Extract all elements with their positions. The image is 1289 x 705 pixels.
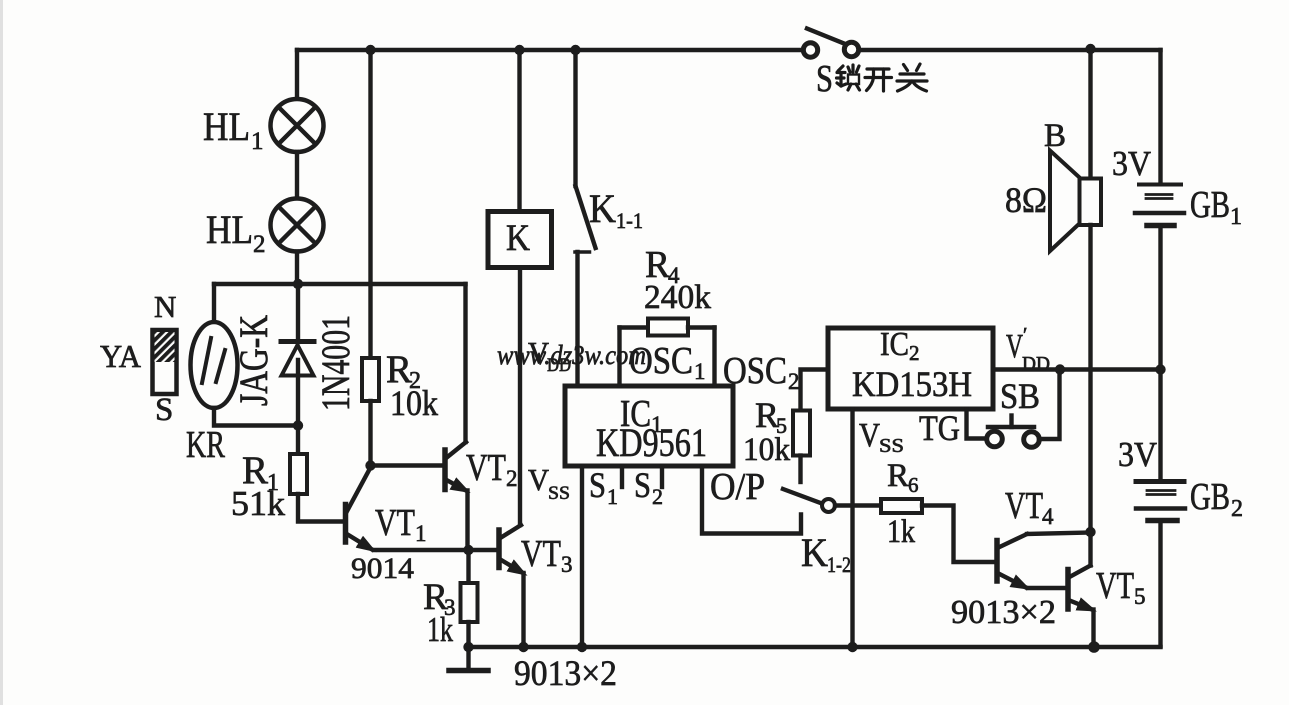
wire R5 bottom stub: [798, 456, 802, 483]
wire to R1: [296, 426, 300, 455]
label IC2: [852, 326, 972, 404]
label VT5: [1096, 565, 1146, 609]
switch K1-2: [783, 489, 835, 512]
char suo: [837, 65, 860, 90]
svg-text:VT: VT: [1096, 565, 1134, 607]
label VT2: [466, 447, 518, 491]
svg-text:VT: VT: [466, 447, 506, 489]
resistor R5: [793, 411, 810, 456]
wire VT4 emitter to VT5 base: [1028, 586, 1066, 590]
wire bottom bus: [469, 645, 1161, 649]
svg-text:S: S: [634, 465, 651, 505]
svg-text:B: B: [1044, 118, 1066, 154]
wire KR bottom lead: [214, 408, 298, 426]
diode 1N4001: [281, 284, 314, 426]
magnet YA body: [153, 330, 177, 394]
wire TG pin to SB: [967, 409, 987, 439]
label GB1: [1190, 184, 1242, 230]
wire subloop top horizontal: [214, 282, 466, 286]
wire node to VT3 base: [469, 548, 498, 552]
svg-text:1: 1: [251, 128, 264, 155]
node Vdd' / GB1: [1155, 364, 1165, 374]
svg-text:R: R: [887, 458, 909, 494]
label VT3: [521, 533, 573, 577]
svg-text:9013×2: 9013×2: [514, 653, 617, 693]
node K branch top bus: [514, 45, 524, 55]
label Vdd' IC2: [1006, 324, 1050, 375]
label K1-2: [801, 530, 851, 577]
svg-text:V: V: [528, 462, 550, 497]
label IC1: [596, 393, 707, 465]
chinese label lock switch (hand-drawn): [837, 64, 928, 91]
wire VT1 emitter to node: [374, 548, 469, 552]
svg-text:OSC: OSC: [723, 350, 787, 392]
resistor R1: [290, 454, 307, 494]
svg-text:VT: VT: [375, 502, 415, 544]
resistor R2: [362, 358, 379, 401]
node K1-1 top bus: [570, 45, 580, 55]
svg-text:9014: 9014: [351, 552, 414, 585]
svg-text:3: 3: [561, 552, 573, 577]
label HL2: [206, 207, 266, 258]
label R2: [386, 348, 438, 423]
svg-text:8Ω: 8Ω: [1005, 180, 1047, 220]
wire VT3 collector to K coil: [518, 268, 522, 526]
svg-text:6: 6: [908, 473, 919, 497]
TEXT-LABELS: [100, 58, 1243, 693]
resistor R3: [461, 550, 478, 647]
svg-text:2: 2: [652, 484, 663, 509]
wire top bus right segment: [859, 48, 1161, 52]
wire R2 branch vertical from top bus: [368, 50, 372, 358]
svg-text:KD9561: KD9561: [596, 420, 707, 465]
node R2 top bus: [365, 45, 375, 55]
node VT2 emitter / VT3 base / R3: [463, 545, 473, 555]
svg-text:3V: 3V: [1112, 144, 1151, 183]
svg-text:VT: VT: [1005, 485, 1043, 527]
wire R2 bottom to node: [368, 401, 372, 466]
label S1: [589, 465, 618, 509]
label R5 10k: [743, 395, 790, 468]
pin S1 stub: [620, 466, 624, 487]
label HL1: [203, 104, 264, 155]
wire HL branch vertical: [295, 50, 299, 99]
transistor VT4: [997, 533, 1091, 588]
svg-text:S: S: [816, 58, 833, 100]
svg-text:4: 4: [1042, 504, 1054, 529]
svg-text:HL: HL: [206, 207, 253, 252]
pin S2 stub: [660, 466, 664, 487]
svg-text:S: S: [155, 392, 173, 428]
wire top bus left segment: [297, 48, 803, 52]
svg-text:′: ′: [1023, 324, 1027, 346]
svg-text:2: 2: [788, 369, 800, 394]
wire VT2 emitter down: [465, 491, 469, 551]
reed switch KR oval: [191, 322, 238, 408]
svg-text:3V: 3V: [1118, 435, 1157, 474]
svg-text:10k: 10k: [390, 383, 438, 423]
wire K1-2 to R6: [835, 503, 881, 507]
wire IC1 Vss pin to bottom bus: [580, 466, 584, 647]
svg-text:1N4001: 1N4001: [313, 315, 358, 411]
char guan: [897, 64, 927, 91]
svg-text:1: 1: [607, 484, 618, 509]
svg-text:TG: TG: [919, 408, 960, 448]
svg-text:2: 2: [253, 231, 266, 258]
svg-text:1k: 1k: [887, 514, 915, 550]
node diode bottom: [293, 420, 303, 430]
svg-text:9013×2: 9013×2: [951, 594, 1056, 631]
svg-text:YA: YA: [100, 338, 141, 374]
svg-text:S: S: [589, 465, 606, 505]
wire VT5 collector vertical: [1088, 532, 1092, 566]
wire KR top lead: [212, 284, 216, 323]
transistor VT1: [346, 467, 373, 550]
node IC1 Vss bus: [577, 642, 587, 652]
wire IC2 Vss to bottom bus: [850, 409, 854, 647]
label OSC2: [723, 350, 800, 394]
wire SB to Vdd line: [1039, 370, 1060, 440]
label Vss IC2: [859, 417, 904, 457]
battery GB1: [1135, 50, 1184, 370]
lamp HL2: [271, 199, 324, 252]
char kai: [865, 69, 892, 91]
label R6 1k: [887, 458, 919, 550]
resistor R4 with loop wires: [620, 319, 715, 336]
wire VT2 collector vertical: [463, 284, 467, 442]
wire OSC2 pin: [712, 328, 716, 387]
wire O/P pin: [702, 466, 801, 534]
wire VT5 emitter to bottom bus: [1091, 610, 1095, 648]
label S2: [634, 465, 663, 509]
svg-text:O/P: O/P: [710, 466, 765, 508]
svg-text:SS: SS: [548, 483, 570, 504]
wire Vdd' line IC2 to batteries: [993, 367, 1161, 371]
svg-text:K: K: [506, 218, 530, 259]
node R3 bottom / ground: [463, 642, 473, 652]
transistor VT3: [499, 525, 523, 573]
node VT1 collector / VT2 base: [365, 460, 375, 470]
label OSC1: [629, 340, 706, 384]
svg-text:SS: SS: [879, 435, 904, 457]
svg-text:V: V: [1006, 328, 1023, 365]
node diode top: [293, 279, 303, 289]
svg-text:K: K: [801, 530, 828, 575]
svg-text:IC: IC: [880, 326, 909, 363]
pushbutton SB: [987, 416, 1040, 448]
wire VT3 emitter to bottom bus: [521, 573, 525, 647]
label VT1 9014: [351, 502, 427, 585]
IC1 KD9561 box: [565, 386, 733, 466]
switch K1-1: [575, 50, 596, 386]
wire between lamps: [295, 152, 299, 199]
svg-text:5: 5: [1134, 584, 1146, 609]
svg-text:JAG-K: JAG-K: [231, 315, 276, 406]
svg-text:DD: DD: [1022, 353, 1050, 375]
svg-text:KD153H: KD153H: [852, 364, 972, 404]
label S lock switch: [816, 58, 833, 100]
wire OSC1 pin: [617, 328, 621, 387]
switch S (lock switch): [803, 29, 858, 58]
label R3: [423, 577, 456, 649]
svg-text:N: N: [154, 289, 176, 324]
svg-text:K: K: [589, 186, 616, 231]
svg-text:1: 1: [1230, 204, 1242, 230]
label R1: [231, 449, 286, 523]
lamp HL1: [271, 99, 324, 152]
svg-text:1: 1: [694, 359, 706, 384]
wire OSC2 node to IC2: [801, 370, 829, 411]
node VT3 emitter bus: [518, 642, 528, 652]
svg-text:HL: HL: [203, 104, 250, 149]
svg-text:1-1: 1-1: [616, 208, 643, 233]
svg-text:OSC: OSC: [629, 340, 693, 382]
reed contact blades: [202, 338, 225, 383]
svg-text:www.dz3w.com: www.dz3w.com: [497, 340, 646, 370]
svg-text:240k: 240k: [644, 279, 711, 316]
wire R1 to VT1 base: [298, 494, 343, 522]
relay coil K box: [488, 50, 552, 268]
speaker B: [1050, 151, 1101, 252]
svg-text:2: 2: [1231, 496, 1243, 522]
node VT5 emitter bus: [1088, 641, 1100, 653]
ground: [449, 647, 488, 671]
svg-text:V: V: [859, 417, 880, 454]
node speaker top bus: [1085, 44, 1095, 54]
node SB / Vdd': [1055, 364, 1065, 374]
label VT4: [1005, 485, 1054, 529]
svg-text:KR: KR: [186, 424, 225, 466]
wire speaker to collectors: [1088, 225, 1092, 532]
transistor VT5: [1068, 566, 1092, 610]
svg-text:1-2: 1-2: [827, 552, 851, 577]
svg-text:SB: SB: [1000, 376, 1040, 416]
svg-text:2: 2: [909, 341, 920, 365]
wire speaker branch vertical: [1088, 50, 1092, 180]
label K1-1: [589, 186, 643, 233]
battery GB2: [1136, 370, 1185, 647]
svg-text:GB: GB: [1190, 476, 1230, 518]
svg-text:51k: 51k: [231, 484, 286, 523]
wire HL2 to node: [295, 252, 299, 285]
IC2 KD153H box: [828, 328, 993, 409]
node IC2 Vss bus: [847, 642, 857, 652]
node VT4/VT5 collector: [1085, 527, 1095, 537]
wire R6 to VT4 base: [922, 506, 995, 563]
svg-text:10k: 10k: [743, 432, 790, 468]
label Vss IC1: [528, 462, 570, 504]
wire node to VT2 base: [371, 463, 444, 467]
label R4 240k: [644, 244, 711, 316]
svg-text:1k: 1k: [427, 610, 453, 649]
svg-text:VT: VT: [521, 533, 561, 575]
label GB2: [1190, 476, 1243, 522]
resistor R6: [881, 499, 922, 513]
svg-text:2: 2: [506, 466, 518, 491]
label Vdd IC1: [528, 335, 571, 376]
transistor VT2: [445, 442, 466, 491]
svg-text:1: 1: [415, 521, 427, 546]
svg-text:GB: GB: [1190, 184, 1230, 226]
scan edge artifact: [0, 0, 3, 705]
